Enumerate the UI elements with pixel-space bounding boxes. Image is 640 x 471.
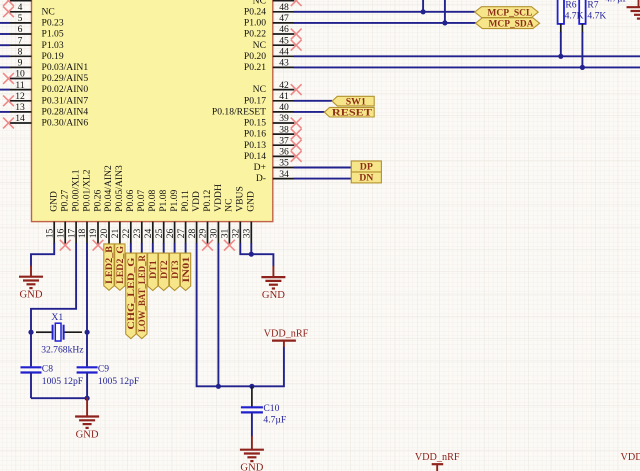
svg-text:39: 39 <box>279 113 289 124</box>
no-connect X pin 12 <box>3 95 14 106</box>
ground GND (crystal) <box>86 398 88 417</box>
port MCP_SCL <box>475 7 538 18</box>
pin 7 (P1.03) left <box>10 44 32 46</box>
svg-text:P0.29/AIN5: P0.29/AIN5 <box>42 73 89 84</box>
pin 30 (VDDH) bottom <box>217 222 219 244</box>
port DT2 <box>159 253 169 290</box>
pin 21 (P0.05/AIN3) bottom <box>119 222 121 244</box>
svg-text:P0.04/AIN2: P0.04/AIN2 <box>103 165 114 212</box>
resistor R7 <box>579 0 585 24</box>
pin 23 (P0.07) bottom <box>141 222 143 244</box>
svg-text:GND: GND <box>20 290 43 301</box>
svg-text:NC: NC <box>253 0 266 6</box>
svg-text:P1.03: P1.03 <box>42 40 64 51</box>
svg-text:47: 47 <box>279 13 289 24</box>
pin 36 (P0.14) right <box>273 155 295 157</box>
svg-text:15: 15 <box>44 229 55 239</box>
svg-text:DT1: DT1 <box>148 260 159 279</box>
wire pin32 to ground net <box>240 243 273 266</box>
svg-text:NC: NC <box>253 84 266 95</box>
pin 44 (P0.20) right <box>273 55 295 57</box>
port LED2_B <box>104 244 114 290</box>
svg-text:D+: D+ <box>254 162 266 173</box>
svg-text:P0.02/AIN0: P0.02/AIN0 <box>42 84 89 95</box>
svg-text:P0.16: P0.16 <box>244 129 266 140</box>
no-connect X pin 42 <box>291 84 302 95</box>
svg-text:LOW_BAT_LED_R: LOW_BAT_LED_R <box>137 254 148 332</box>
no-connect X pin 19 <box>93 240 104 251</box>
svg-text:P0.13: P0.13 <box>244 140 266 151</box>
wire pin 44 rightward <box>294 55 640 57</box>
svg-text:VDD_nRF: VDD_nRF <box>415 452 460 463</box>
svg-text:7: 7 <box>18 35 23 46</box>
pin 40 (P0.18/RESET) right <box>273 111 295 113</box>
wire pin18 down to C9 <box>86 243 88 366</box>
svg-text:LED2_G: LED2_G <box>115 246 126 284</box>
resistor R6 <box>558 0 564 24</box>
svg-text:GND: GND <box>262 290 285 301</box>
svg-text:21: 21 <box>110 229 121 239</box>
svg-text:25: 25 <box>154 229 165 239</box>
pin 35 (D+) right <box>273 167 295 169</box>
svg-text:P0.17: P0.17 <box>244 95 266 106</box>
svg-text:IN01: IN01 <box>181 256 192 282</box>
svg-text:VDDH: VDDH <box>213 184 224 212</box>
svg-text:28: 28 <box>187 229 198 239</box>
wire pin28 down to rail <box>197 243 284 386</box>
wire vertical to pin48 net <box>422 0 424 12</box>
pin 3 (NC) left <box>10 0 32 2</box>
pin 17 (P0.00/XL1) bottom <box>75 222 77 244</box>
wire R6 to SCL net <box>560 32 562 56</box>
pin 9 (P0.03/AIN1) left <box>10 66 32 68</box>
pin 10 (P0.29/AIN5) left <box>10 78 32 80</box>
wire pin 7 to left edge <box>0 44 10 46</box>
pin 24 (P0.08) bottom <box>152 222 154 244</box>
svg-text:34: 34 <box>279 169 289 180</box>
port IN01 <box>180 253 190 290</box>
no-connect X pin 31 <box>224 240 235 251</box>
svg-text:P0.27: P0.27 <box>60 189 71 211</box>
no-connect X pin 16 <box>60 240 71 251</box>
svg-text:11: 11 <box>15 80 24 91</box>
svg-text:SW1: SW1 <box>346 96 366 107</box>
pin 47 (P1.00) right <box>273 22 295 24</box>
svg-text:P0.22: P0.22 <box>244 29 266 40</box>
svg-text:22: 22 <box>121 229 132 239</box>
pin 20 (P0.04/AIN2) bottom <box>108 222 110 244</box>
svg-text:43: 43 <box>279 58 289 69</box>
no-connect X pin 3 <box>3 0 14 6</box>
svg-text:10: 10 <box>15 69 25 80</box>
svg-text:P0.23: P0.23 <box>42 18 64 29</box>
svg-text:41: 41 <box>279 91 289 102</box>
wire pin 8 to left edge <box>0 55 10 57</box>
svg-text:P0.20: P0.20 <box>244 51 266 62</box>
pin 32 (VBUS) bottom <box>239 222 241 244</box>
svg-text:P0.28/AIN4: P0.28/AIN4 <box>42 107 89 118</box>
svg-text:35: 35 <box>279 158 289 169</box>
junction pin33/gnd wire <box>249 252 254 257</box>
pin 39 (P0.15) right <box>273 122 295 124</box>
svg-text:R6: R6 <box>565 0 576 11</box>
svg-text:P1.05: P1.05 <box>42 29 64 40</box>
svg-text:4.7K: 4.7K <box>565 10 584 21</box>
svg-text:26: 26 <box>165 229 176 239</box>
pin 11 (P0.02/AIN0) left <box>10 89 32 91</box>
port SW1 <box>332 96 374 106</box>
svg-text:C8: C8 <box>42 364 53 375</box>
pin 18 (P0.01/XL2) bottom <box>86 222 88 244</box>
wire pin 5 to left edge <box>0 22 10 24</box>
svg-text:RESET: RESET <box>332 108 373 119</box>
port LOW_BAT_LED_R <box>137 253 147 339</box>
svg-text:X1: X1 <box>51 312 63 323</box>
svg-text:P0.15: P0.15 <box>244 118 266 129</box>
junction at pin47 wire <box>442 20 447 25</box>
svg-text:40: 40 <box>279 102 289 113</box>
svg-text:4.7K: 4.7K <box>587 10 606 21</box>
svg-text:1005 12pF: 1005 12pF <box>42 376 83 387</box>
no-connect X pin 46 <box>291 29 302 40</box>
svg-text:DP: DP <box>360 162 373 173</box>
svg-text:32.768kHz: 32.768kHz <box>41 345 83 356</box>
wire crystal bottom rail <box>31 397 87 399</box>
svg-text:16: 16 <box>55 229 66 239</box>
svg-text:GND: GND <box>240 463 263 471</box>
pin 28 (VDD) bottom <box>196 222 198 244</box>
svg-text:5: 5 <box>18 13 23 24</box>
junction crystal left <box>28 330 33 335</box>
pin 27 (P0.11) bottom <box>185 222 187 244</box>
pin 19 (P0.26) bottom <box>97 222 99 244</box>
svg-text:P0.11: P0.11 <box>180 190 191 212</box>
svg-text:18: 18 <box>77 229 88 239</box>
svg-text:31: 31 <box>220 229 231 239</box>
no-connect X pin 38 <box>291 129 302 140</box>
svg-text:MCP_SDA: MCP_SDA <box>489 19 534 30</box>
pin 48 (P0.24) right <box>273 11 295 13</box>
svg-text:P0.24: P0.24 <box>244 6 266 17</box>
svg-text:20: 20 <box>99 229 110 239</box>
svg-text:D-: D- <box>256 173 266 184</box>
svg-text:14: 14 <box>15 113 25 124</box>
svg-text:P1.00: P1.00 <box>244 18 266 29</box>
svg-text:P0.03/AIN1: P0.03/AIN1 <box>42 62 89 73</box>
wire pin33 down <box>250 243 252 254</box>
svg-text:27: 27 <box>176 229 187 239</box>
svg-text:P0.21: P0.21 <box>244 62 266 73</box>
svg-text:4.7µF: 4.7µF <box>263 414 286 425</box>
port RESET <box>324 107 374 117</box>
svg-text:4.7µF: 4.7µF <box>605 0 628 5</box>
wire pin15 to ground <box>31 243 54 266</box>
no-connect X pin 29 <box>202 240 213 251</box>
wire pin 11 to left edge <box>0 89 10 91</box>
wire stub pin 25 <box>163 243 165 253</box>
wire stub pin 24 <box>152 243 154 253</box>
no-connect X pin 4 <box>3 6 14 17</box>
svg-text:GND: GND <box>49 191 60 212</box>
pin 6 (P1.05) left <box>10 33 32 35</box>
wire R7 to SDA net <box>581 32 583 67</box>
ground GND (C10) <box>251 436 253 450</box>
crystal X1 <box>36 331 52 333</box>
wire vertical to pin47 net <box>444 0 446 23</box>
wire pin 13 to left edge <box>0 111 10 113</box>
svg-text:29: 29 <box>198 229 209 239</box>
svg-text:NC: NC <box>42 6 55 17</box>
svg-text:23: 23 <box>132 229 143 239</box>
svg-text:GND: GND <box>246 191 257 212</box>
wire stub pin 27 <box>185 243 187 253</box>
svg-text:P0.30/AIN6: P0.30/AIN6 <box>42 118 89 129</box>
svg-text:P0.08: P0.08 <box>147 189 158 211</box>
ground GND (left) <box>30 266 32 277</box>
pin 33 (GND) bottom <box>250 222 252 244</box>
power VDD_nRF (above C10) <box>283 341 285 347</box>
svg-text:36: 36 <box>279 147 289 158</box>
svg-text:P0.12: P0.12 <box>202 189 213 211</box>
port DT3 <box>170 253 180 290</box>
wire pin 34 rightward <box>294 178 352 180</box>
ic U1 body (nRF52 module, top cropped) <box>32 0 273 222</box>
pin 12 (P0.31/AIN7) left <box>10 100 32 102</box>
capacitor C9 <box>77 366 98 368</box>
svg-text:P0.18/RESET: P0.18/RESET <box>212 107 266 118</box>
pin 42 (NC) right <box>273 89 295 91</box>
svg-text:42: 42 <box>279 80 289 91</box>
svg-text:DN: DN <box>359 173 373 184</box>
wire stub pin 26 <box>174 243 176 253</box>
pin 34 (D-) right <box>273 178 295 180</box>
svg-text:37: 37 <box>279 135 289 146</box>
no-connect X pin 39 <box>291 118 302 129</box>
svg-text:P0.31/AIN7: P0.31/AIN7 <box>42 95 89 106</box>
pin 22 (P0.06) bottom <box>130 222 132 244</box>
svg-text:46: 46 <box>279 24 289 35</box>
svg-text:P0.07: P0.07 <box>136 189 147 211</box>
wire pin17 to crystal left <box>31 243 76 366</box>
port CHG_LED_G <box>126 253 136 339</box>
junction crystal right <box>85 330 90 335</box>
pin 37 (P0.13) right <box>273 144 295 146</box>
pin 16 (P0.27) bottom <box>64 222 66 244</box>
svg-text:13: 13 <box>15 102 25 113</box>
svg-text:VDD_nRF: VDD_nRF <box>264 328 309 339</box>
svg-text:DT3: DT3 <box>170 260 181 279</box>
port MCP_SDA <box>476 18 540 29</box>
pin 31 (NC) bottom <box>228 222 230 244</box>
svg-text:P0.01/XL2: P0.01/XL2 <box>81 169 92 212</box>
svg-text:P1.09: P1.09 <box>169 189 180 211</box>
wire pin 47 rightward <box>294 22 476 24</box>
svg-text:P0.05/AIN3: P0.05/AIN3 <box>114 165 125 212</box>
svg-text:P0.26: P0.26 <box>92 189 103 211</box>
svg-text:P0.00/XL1: P0.00/XL1 <box>70 169 81 212</box>
svg-text:LED2_B: LED2_B <box>104 245 115 283</box>
no-connect X pin 14 <box>3 118 14 129</box>
no-connect X pin 2 <box>291 0 302 6</box>
pin 2 (NC) right <box>273 0 295 2</box>
wire stub pin 22 <box>130 243 132 253</box>
pin 15 (GND) bottom <box>53 222 55 244</box>
junction pin30/rail <box>216 384 221 389</box>
svg-text:GND: GND <box>76 429 99 440</box>
port DP <box>351 161 381 172</box>
wire pin 48 rightward <box>294 11 475 13</box>
svg-text:NC: NC <box>253 40 266 51</box>
svg-text:8: 8 <box>18 47 23 58</box>
no-connect X pin 37 <box>291 140 302 151</box>
pin 38 (P0.16) right <box>273 133 295 135</box>
svg-text:38: 38 <box>279 124 289 135</box>
ground (top right, cropped) <box>638 0 640 7</box>
pin 4 (NC) left <box>10 11 32 13</box>
svg-text:P0.14: P0.14 <box>244 151 266 162</box>
capacitor C10 <box>251 386 253 406</box>
wire pin 41 rightward <box>294 100 332 102</box>
junction at pin48 wire <box>421 9 426 14</box>
svg-text:C10: C10 <box>263 403 279 414</box>
pin 5 (P0.23) left <box>10 22 32 24</box>
port DT1 <box>148 253 158 290</box>
junction crystal gnd <box>85 396 90 401</box>
svg-text:MCP_SCL: MCP_SCL <box>487 7 532 18</box>
svg-text:12: 12 <box>15 91 25 102</box>
pin 25 (P1.08) bottom <box>163 222 165 244</box>
svg-text:VBUS: VBUS <box>235 186 246 212</box>
junction C10/rail <box>249 384 254 389</box>
svg-text:R7: R7 <box>587 0 598 11</box>
svg-text:4: 4 <box>18 2 23 13</box>
svg-text:CHG_LED_G: CHG_LED_G <box>126 257 137 329</box>
svg-text:44: 44 <box>279 47 289 58</box>
svg-text:32: 32 <box>231 229 242 239</box>
svg-text:45: 45 <box>279 35 289 46</box>
wire pin 9 to left edge <box>0 66 10 68</box>
svg-text:VDD: VDD <box>191 191 202 212</box>
svg-text:P1.08: P1.08 <box>158 189 169 211</box>
junction R7/wire <box>580 65 585 70</box>
no-connect X pin 10 <box>3 73 14 84</box>
pin 26 (P1.09) bottom <box>174 222 176 244</box>
port LED2_G <box>115 244 125 290</box>
pin 45 (NC) right <box>273 44 295 46</box>
wire pin30 down to rail <box>217 243 219 386</box>
pin 13 (P0.28/AIN4) left <box>10 111 32 113</box>
svg-text:6: 6 <box>18 24 23 35</box>
svg-text:C9: C9 <box>98 364 109 375</box>
pin 41 (P0.17) right <box>273 100 295 102</box>
svg-text:33: 33 <box>242 229 253 239</box>
pin 14 (P0.30/AIN6) left <box>10 122 32 124</box>
svg-text:DT2: DT2 <box>159 260 170 279</box>
wire pin 6 to left edge <box>0 33 10 35</box>
no-connect X pin 36 <box>291 151 302 162</box>
svg-text:VDD_nRF: VDD_nRF <box>621 452 640 463</box>
no-connect X pin 45 <box>291 40 302 51</box>
ground GND (right of ports) <box>272 266 274 277</box>
pin 46 (P0.22) right <box>273 33 295 35</box>
svg-text:P0.06: P0.06 <box>125 189 136 211</box>
svg-text:19: 19 <box>88 229 99 239</box>
svg-text:30: 30 <box>209 229 220 239</box>
wire pin 40 rightward <box>294 111 325 113</box>
pin 43 (P0.21) right <box>273 66 295 68</box>
svg-text:48: 48 <box>279 2 289 13</box>
svg-text:17: 17 <box>66 229 77 239</box>
capacitor C8 <box>21 366 42 368</box>
svg-text:NC: NC <box>224 198 235 211</box>
svg-text:1005 12pF: 1005 12pF <box>98 376 139 387</box>
wire stub pin 23 <box>141 243 143 253</box>
svg-text:9: 9 <box>18 58 23 69</box>
wire pin 43 rightward <box>294 66 640 68</box>
wire pin 35 rightward <box>294 167 352 169</box>
svg-text:P0.19: P0.19 <box>42 51 64 62</box>
pin 8 (P0.19) left <box>10 55 32 57</box>
pin 29 (P0.12) bottom <box>207 222 209 244</box>
port DN <box>351 172 381 183</box>
svg-text:24: 24 <box>143 229 154 239</box>
junction R6/wire <box>558 54 563 59</box>
